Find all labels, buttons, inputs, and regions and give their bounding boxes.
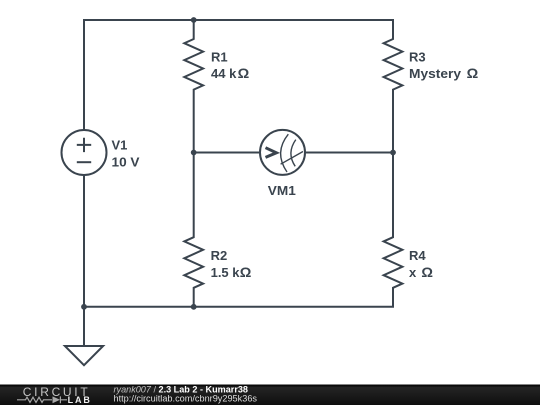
logo diode cathode bar and wire [60, 396, 67, 403]
junction ground node [81, 304, 87, 310]
svg-text:Ω: Ω [238, 65, 250, 81]
ground lead wire [83, 307, 85, 346]
VM1 needle [281, 152, 303, 165]
svg-text:1.5 k: 1.5 k [211, 265, 241, 280]
footer bar [0, 385, 540, 405]
svg-text:VM1: VM1 [268, 183, 296, 198]
V1 minus sign [77, 161, 91, 163]
svg-text:R2: R2 [211, 248, 228, 263]
svg-text:R1: R1 [211, 50, 228, 65]
svg-text:LAB: LAB [68, 395, 92, 405]
junction node C (R1 bottom / VM1 left) [191, 150, 197, 156]
wire left column bottom (V1 - terminal to bottom rail) [83, 175, 85, 307]
wire mid rail left (node C to VM1 left pin) [194, 152, 260, 154]
V1 plus sign [77, 138, 91, 152]
VM1 meter arc 2 [291, 140, 296, 167]
VM1 input chevron [266, 148, 277, 158]
logo schematic wire with resistor [17, 397, 52, 402]
svg-text:V1: V1 [112, 138, 128, 153]
voltage source V1 circle [62, 130, 107, 175]
svg-text:http://circuitlab.com/cbnr9y29: http://circuitlab.com/cbnr9y295k36s [114, 394, 258, 404]
resistor R3 Mystery Ohm [384, 20, 403, 153]
voltmeter VM1 circle [260, 130, 305, 175]
svg-text:Ω: Ω [467, 65, 479, 81]
svg-text:44 k: 44 k [211, 66, 237, 81]
junction node B (top rail / R1) [191, 17, 197, 23]
VM1 meter arc 1 [281, 134, 289, 172]
resistor R1 44 kOhm [184, 20, 203, 153]
ground symbol triangle [65, 346, 103, 365]
wire top rail (V1 + terminal up, across to R3 top) [84, 20, 393, 130]
svg-text:Ω: Ω [240, 264, 252, 280]
wire mid rail right (VM1 right pin to node D) [305, 152, 393, 154]
svg-text:10 V: 10 V [112, 154, 140, 169]
svg-text:R4: R4 [409, 248, 426, 263]
resistor R4 x Ohm [384, 153, 403, 307]
logo diode [53, 396, 61, 403]
svg-text:R3: R3 [409, 50, 426, 65]
junction node E (bottom rail / R2 bottom) [191, 304, 197, 310]
svg-text:Mystery: Mystery [409, 66, 462, 81]
resistor R2 1.5 kOhm [184, 153, 203, 307]
svg-text:Ω: Ω [421, 264, 433, 280]
wire bottom rail (ground lead corner across to R4 bottom) [84, 288, 393, 346]
junction node D (VM1 right / R3 bottom) [390, 150, 396, 156]
svg-text:x: x [409, 265, 417, 280]
